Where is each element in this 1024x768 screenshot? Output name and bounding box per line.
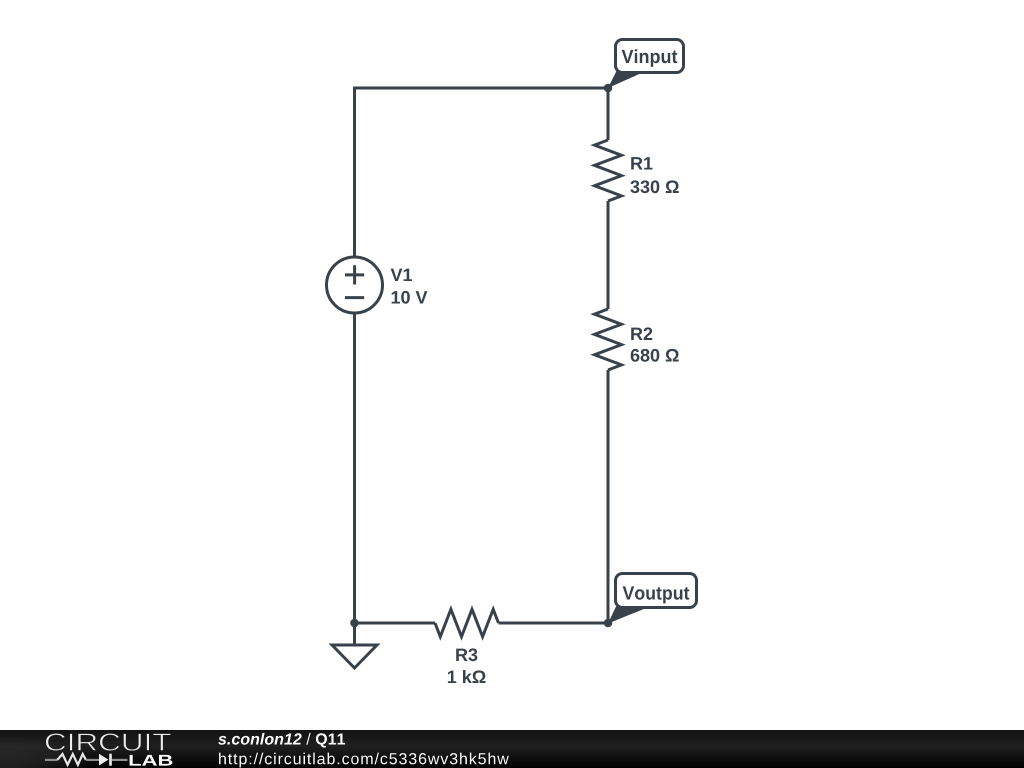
wire bottom left from ground junction to R3: [355, 622, 436, 625]
CircuitLab logo wordmark CIRCUIT: [46, 733, 171, 751]
node label Vinput: [608, 40, 684, 89]
logo wire right: [112, 759, 128, 761]
logo wordmark LAB: [130, 755, 173, 766]
logo diode cathode bar: [109, 754, 112, 766]
logo resistor zigzag: [57, 754, 86, 765]
junction dot at node Voutput: [604, 619, 613, 628]
wire right rail lead into R1: [607, 88, 610, 140]
logo wire left: [45, 759, 57, 761]
footer bar: [0, 730, 1024, 768]
junction dot at node Vinput: [604, 84, 613, 93]
footer url text circuitlab.com/c5336wv3hk5hw: [219, 753, 509, 768]
ground: [332, 623, 377, 668]
value 10 V: [392, 291, 428, 304]
resistor R1: [595, 140, 622, 201]
label R2: [631, 327, 652, 340]
resistor R2: [595, 309, 622, 370]
value 1 kΩ: [448, 670, 486, 683]
label R3: [456, 648, 477, 661]
wire bottom right from R3 to Voutput node: [499, 622, 609, 625]
wire left rail from V1 down to ground junction: [353, 313, 356, 623]
logo wire middle: [86, 759, 99, 761]
value 680 Ω: [631, 349, 679, 362]
wire top rail from V1 up and across to Vinput node: [355, 88, 609, 257]
label V1: [391, 269, 412, 281]
label R1: [631, 157, 652, 169]
wire right rail from R2 down to Voutput node: [607, 370, 610, 623]
logo diode: [99, 754, 108, 766]
junction dot at ground node: [350, 619, 359, 628]
node label Voutput: [608, 574, 697, 624]
wire between R1 and R2: [607, 201, 610, 309]
value 330 Ω: [630, 180, 678, 193]
footer text s.conlon12 / Q11: [218, 733, 345, 748]
resistor R3: [435, 609, 499, 636]
voltage source V1: [327, 257, 383, 313]
